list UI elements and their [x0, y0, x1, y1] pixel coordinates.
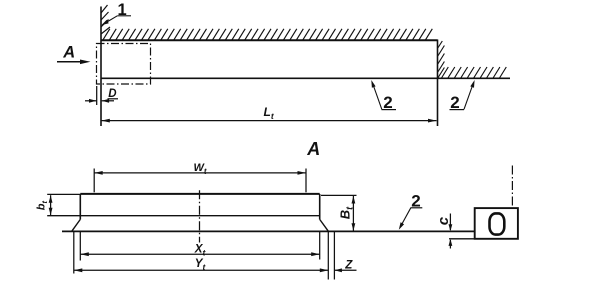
box bottom ext line — [449, 238, 475, 240]
phantom rectangle (part original position) — [97, 44, 151, 85]
dimension c — [449, 214, 451, 231]
substrate line — [62, 230, 475, 232]
left fillet slant — [72, 219, 81, 231]
svg-text:c: c — [435, 216, 452, 225]
ceiling hatch band — [103, 29, 432, 40]
dimension Z — [334, 269, 356, 271]
section right edge — [319, 194, 321, 219]
dimension D — [96, 86, 98, 105]
ext Xt left — [79, 231, 81, 260]
leader and label 1 — [103, 16, 118, 25]
dimension Wt — [93, 169, 95, 193]
section left edge — [79, 194, 81, 219]
wall line left — [100, 7, 102, 127]
b ext top — [47, 193, 80, 195]
beam lower face line — [47, 215, 320, 217]
dimension Yt — [74, 269, 328, 271]
svg-text:Z: Z — [344, 258, 353, 271]
detail box — [475, 208, 518, 239]
dimension Lt — [101, 120, 436, 122]
ext Yt left — [73, 231, 75, 273]
O mark — [490, 213, 505, 234]
svg-text:A: A — [306, 139, 320, 159]
ext Z right — [333, 231, 335, 279]
beam bottom and floor line — [101, 77, 510, 79]
wall hatch right — [438, 41, 445, 78]
centerline — [199, 190, 201, 242]
right fillet slant — [320, 219, 329, 231]
dimension Xt — [80, 253, 319, 255]
wall line right — [437, 40, 439, 127]
dimension Bt — [321, 194, 357, 196]
centerline above box — [511, 166, 513, 209]
floor hatch — [442, 67, 507, 78]
ext Yt right — [327, 231, 329, 279]
svg-text:A: A — [62, 44, 75, 62]
dimension b1 — [50, 195, 52, 215]
section top line — [80, 193, 319, 195]
ext Xt right — [319, 231, 321, 259]
svg-text:1: 1 — [118, 1, 127, 19]
beam top line — [101, 39, 438, 41]
wall hatch left — [101, 5, 110, 34]
